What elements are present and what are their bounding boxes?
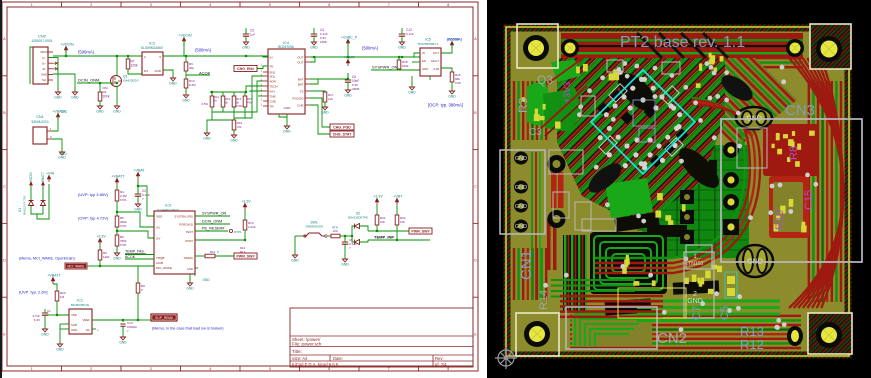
svg-text:OUT: OUT	[297, 60, 304, 64]
svg-text:(500mA): (500mA)	[362, 46, 379, 51]
svg-text:B: B	[3, 111, 6, 115]
svg-text:A: A	[3, 37, 6, 41]
svg-text:A: A	[474, 37, 477, 41]
svg-text:TEMP_INP: TEMP_INP	[374, 235, 394, 240]
svg-text:KiCad E.D.A. kicad 6.0.5: KiCad E.D.A. kicad 6.0.5	[292, 362, 339, 367]
svg-text:(500mA): (500mA)	[78, 50, 95, 55]
svg-text:PE_RESER#: PE_RESER#	[202, 227, 225, 231]
svg-text:7: 7	[142, 197, 144, 201]
svg-text:OUT: OUT	[433, 51, 439, 55]
svg-text:E: E	[3, 332, 6, 336]
svg-text:GND: GND	[284, 106, 292, 110]
svg-text:GND: GND	[687, 298, 703, 305]
svg-text:4: 4	[209, 3, 211, 7]
svg-text:GND: GND	[71, 96, 79, 100]
svg-text:120k: 120k	[131, 64, 138, 68]
svg-text:CN2: CN2	[657, 330, 687, 347]
svg-text:GND: GND	[54, 96, 62, 100]
svg-text:+3.3V: +3.3V	[96, 235, 106, 239]
svg-text:TNB: TNB	[270, 94, 276, 98]
svg-text:CHE: CHE	[297, 103, 303, 107]
svg-text:CN1: CN1	[518, 250, 535, 280]
svg-text:PORT: PORT	[185, 239, 193, 243]
svg-text:IC5: IC5	[425, 38, 431, 42]
svg-text:0.5%: 0.5%	[202, 102, 209, 106]
svg-text:C7: C7	[691, 306, 703, 320]
svg-text:DCIN_ONM: DCIN_ONM	[78, 78, 99, 83]
svg-text:PORCH(S): PORCH(S)	[179, 223, 193, 227]
svg-text:2: 2	[90, 367, 92, 371]
svg-text:BAT: BAT	[298, 82, 304, 86]
svg-text:0.5%: 0.5%	[120, 198, 127, 202]
svg-text:CN3: CN3	[785, 102, 815, 119]
svg-text:7: 7	[388, 3, 390, 7]
svg-text:Date:: Date:	[333, 356, 343, 361]
svg-text:(OVP: typ 4.72V): (OVP: typ 4.72V)	[78, 216, 109, 221]
svg-text:THERMOSW: THERMOSW	[305, 225, 323, 229]
svg-text:10k: 10k	[380, 220, 385, 224]
svg-text:1M: 1M	[60, 295, 65, 299]
svg-text:R10: R10	[774, 210, 786, 230]
svg-text:IN: IN	[270, 55, 273, 59]
svg-text:R3: R3	[516, 97, 530, 113]
svg-text:3: 3	[150, 367, 152, 371]
svg-text:C3: C3	[529, 127, 542, 138]
svg-text:1: 1	[31, 3, 33, 7]
svg-text:0.05: 0.05	[455, 81, 461, 85]
svg-text:D: D	[3, 259, 6, 263]
svg-text:SUP_REM#: SUP_REM#	[155, 316, 173, 320]
svg-text:GND: GND	[242, 46, 250, 50]
svg-text:GND: GND	[59, 152, 67, 156]
svg-text:4: 4	[209, 367, 211, 371]
svg-text:R12: R12	[210, 250, 216, 254]
svg-text:GND: GND	[422, 67, 428, 71]
svg-text:DTP1: DTP1	[234, 230, 242, 234]
svg-text:TEST: TEST	[186, 230, 193, 234]
svg-text:C15: C15	[803, 190, 815, 210]
svg-text:47k: 47k	[237, 125, 242, 129]
svg-text:1: 1	[261, 53, 263, 57]
svg-text:TR(EN): TR(EN)	[184, 256, 194, 260]
svg-text:FAULT: FAULT	[431, 59, 439, 63]
svg-text:6: 6	[328, 367, 330, 371]
svg-text:6: 6	[328, 3, 330, 7]
svg-text:R8: R8	[788, 146, 800, 160]
svg-text:2: 2	[90, 3, 92, 7]
svg-text:TEMP_FAS: TEMP_FAS	[125, 250, 144, 254]
svg-text:SUB: SUB	[71, 323, 77, 327]
svg-text:0.5%: 0.5%	[120, 224, 127, 228]
svg-text:DCIN_ONM: DCIN_ONM	[202, 220, 222, 224]
svg-text:TECH: TECH	[270, 84, 278, 88]
svg-text:CHG_STAT: CHG_STAT	[333, 133, 353, 137]
svg-text:GND: GND	[202, 278, 210, 282]
svg-text:3: 3	[150, 3, 152, 7]
svg-text:CN2: CN2	[38, 34, 47, 39]
svg-text:+VBT: +VBT	[393, 195, 403, 199]
svg-text:+VBAT: +VBAT	[133, 169, 145, 173]
svg-text:.TN103: .TN103	[687, 261, 704, 267]
svg-text:SI4425DDY: SI4425DDY	[123, 79, 139, 83]
svg-text:GND: GND	[182, 99, 190, 103]
svg-text:Q3: Q3	[537, 73, 553, 87]
svg-text:GND: GND	[515, 156, 527, 162]
svg-text:100k: 100k	[103, 95, 110, 99]
svg-text:12k: 12k	[328, 97, 333, 101]
svg-text:GND: GND	[408, 91, 416, 95]
svg-text:C: C	[474, 185, 477, 189]
svg-text:E: E	[474, 332, 477, 336]
svg-text:+VBATT: +VBATT	[111, 175, 125, 179]
svg-text:8: 8	[447, 3, 449, 7]
svg-text:1k: 1k	[214, 99, 218, 103]
svg-text:1: 1	[31, 367, 33, 371]
svg-text:6.3V: 6.3V	[34, 318, 40, 322]
svg-text:+3V3: +3V3	[562, 82, 572, 103]
svg-text:+VSBC_P: +VSBC_P	[341, 36, 358, 40]
svg-text:SYSPWR_ON: SYSPWR_ON	[202, 212, 227, 216]
svg-text:GND: GND	[283, 130, 291, 134]
svg-text:GND: GND	[448, 95, 456, 99]
svg-text:EN: EN	[422, 59, 426, 63]
svg-text:VDD: VDD	[156, 215, 163, 219]
svg-text:[UVP: typ. 2.6V]: [UVP: typ. 2.6V]	[19, 290, 47, 295]
svg-text:1uF: 1uF	[250, 33, 255, 37]
svg-text:+VBAT: +VBAT	[343, 56, 355, 60]
svg-text:C: C	[3, 185, 6, 189]
svg-text:+VBATT: +VBATT	[52, 110, 66, 114]
svg-text:47k: 47k	[247, 101, 252, 105]
svg-text:0.5%: 0.5%	[120, 243, 127, 247]
svg-text:GND: GND	[515, 224, 527, 230]
svg-text:ADR: ADR	[270, 79, 277, 83]
svg-text:D-: D-	[43, 56, 46, 60]
svg-text:CHG_EN#: CHG_EN#	[237, 67, 254, 71]
svg-text:PWR_SW#: PWR_SW#	[411, 230, 429, 234]
svg-text:SYSPWR_ON: SYSPWR_ON	[372, 65, 398, 70]
svg-text:GND: GND	[398, 46, 406, 50]
svg-text:D: D	[474, 259, 477, 263]
svg-text:Size: A4: Size: A4	[292, 356, 308, 361]
svg-text:1608: 1608	[320, 40, 327, 44]
svg-text:OV: OV	[156, 237, 160, 241]
svg-text:5: 5	[269, 3, 271, 7]
svg-text:CHG_PGD: CHG_PGD	[333, 126, 351, 130]
svg-text:TS: TS	[300, 89, 304, 93]
svg-text:1050017-0001: 1050017-0001	[31, 39, 52, 43]
svg-text:+VIN: +VIN	[46, 172, 54, 176]
svg-text:120k: 120k	[103, 255, 110, 259]
svg-text:5: 5	[269, 367, 271, 371]
svg-text:+3.3V: +3.3V	[373, 195, 383, 199]
svg-text:TE: TE	[270, 64, 274, 68]
svg-text:GND: GND	[310, 46, 318, 50]
svg-text:GND: GND	[186, 287, 194, 291]
svg-text:VBUS: VBUS	[40, 50, 48, 54]
svg-text:TPS2553DRV-1: TPS2553DRV-1	[417, 42, 439, 46]
svg-text:BAV23SDKTPE: BAV23SDKTPE	[348, 216, 368, 220]
svg-text:R12: R12	[740, 337, 764, 352]
svg-text:GND: GND	[230, 139, 238, 143]
svg-text:0.5%: 0.5%	[236, 104, 243, 108]
svg-text:2: 2	[50, 135, 52, 139]
svg-text:PWR_SW#: PWR_SW#	[236, 255, 254, 259]
svg-text:1: 1	[50, 127, 52, 131]
svg-text:GND: GND	[113, 110, 121, 114]
svg-text:R14: R14	[538, 290, 550, 310]
svg-text:0.1uF: 0.1uF	[406, 32, 414, 36]
svg-text:ID: ID	[43, 67, 46, 71]
svg-text:(Memo, MCI_WAKE, OpenDrain): (Memo, MCI_WAKE, OpenDrain)	[19, 257, 76, 261]
svg-text:PT2 base rev. 1.1: PT2 base rev. 1.1	[620, 34, 745, 51]
svg-text:GND: GND	[134, 208, 142, 212]
svg-text:KIH: KIH	[270, 89, 275, 93]
svg-text:GND: GND	[56, 348, 64, 352]
svg-text:BD48235FVE: BD48235FVE	[71, 303, 89, 307]
svg-text:AB05: AB05	[352, 87, 360, 91]
svg-text:R2: R2	[103, 90, 107, 94]
svg-text:D4: D4	[144, 69, 148, 73]
svg-text:(UVP: typ 3.85V): (UVP: typ 3.85V)	[78, 192, 109, 197]
svg-text:CN1: CN1	[36, 115, 44, 119]
svg-text:GND: GND	[344, 94, 352, 98]
svg-text:2k: 2k	[225, 101, 229, 105]
svg-text:30k: 30k	[189, 66, 194, 70]
svg-text:ACOK: ACOK	[125, 255, 136, 259]
svg-text:GND: GND	[341, 263, 349, 267]
svg-text:6.2M: 6.2M	[189, 83, 196, 87]
svg-text:D1: D1	[18, 208, 22, 212]
svg-text:7: 7	[388, 367, 390, 371]
svg-text:x: x	[97, 328, 99, 332]
svg-text:53048-0210: 53048-0210	[31, 120, 48, 124]
svg-text:+VBATT: +VBATT	[47, 274, 61, 278]
svg-text:7: 7	[127, 329, 129, 333]
svg-text:+VDCIN: +VDCIN	[178, 34, 192, 38]
svg-text:GND: GND	[119, 341, 127, 345]
svg-text:MCI_WAKE: MCI_WAKE	[156, 266, 172, 270]
svg-text:8: 8	[447, 367, 449, 371]
svg-text:VREF: VREF	[83, 318, 91, 322]
svg-text:SLG59M1A56V: SLG59M1A56V	[141, 46, 164, 50]
svg-text:GND: GND	[321, 111, 329, 115]
svg-text:GND: GND	[41, 73, 47, 77]
svg-text:1: 1	[261, 62, 263, 66]
svg-text:SDL: SDL	[270, 74, 276, 78]
svg-text:OUT: OUT	[297, 55, 304, 59]
svg-text:100k: 100k	[402, 64, 409, 68]
svg-text:VDD: VDD	[71, 313, 77, 317]
svg-text:File: power.sch: File: power.sch	[292, 342, 322, 347]
svg-text:IN: IN	[422, 51, 425, 55]
svg-text:(500mA): (500mA)	[447, 37, 463, 42]
svg-text:ILIM: ILIM	[434, 67, 440, 71]
svg-text:C1: C1	[47, 309, 51, 313]
svg-text:ACIB: ACIB	[156, 261, 163, 265]
svg-text:(500mA): (500mA)	[195, 48, 212, 53]
svg-text:Id: 2/4: Id: 2/4	[435, 362, 447, 367]
svg-text:GND: GND	[96, 110, 104, 114]
svg-text:BAT: BAT	[298, 77, 304, 81]
svg-text:GND: GND	[187, 267, 193, 271]
svg-text:SYSTEM_(PE): SYSTEM_(PE)	[174, 215, 193, 219]
svg-text:GND: GND	[203, 137, 211, 141]
svg-text:B: B	[474, 111, 477, 115]
svg-text:C5: C5	[719, 306, 731, 320]
svg-text:2.00k: 2.00k	[248, 225, 256, 229]
svg-text:1: 1	[261, 97, 263, 101]
svg-text:7: 7	[349, 246, 351, 250]
svg-text:CHE: CHE	[270, 99, 276, 103]
svg-text:NC: NC	[86, 328, 90, 332]
svg-text:GND: GND	[41, 333, 49, 337]
svg-text:GND: GND	[515, 185, 527, 191]
svg-text:+VDCIN: +VDCIN	[60, 43, 74, 47]
svg-text:GND: GND	[113, 257, 121, 261]
svg-text:0: 0	[217, 250, 219, 254]
svg-text:BAS21VY-7F6: BAS21VY-7F6	[23, 195, 27, 215]
svg-text:Title:: Title:	[292, 349, 302, 354]
svg-text:UV: UV	[156, 226, 160, 230]
svg-text:(Memo, In the case that load s: (Memo, In the case that load sw is broke…	[152, 327, 224, 331]
svg-text:10k: 10k	[400, 220, 405, 224]
svg-text:TRQB: TRQB	[156, 256, 164, 260]
svg-text:IC1: IC1	[77, 299, 83, 303]
svg-text:GND: GND	[58, 156, 66, 160]
svg-text:[OCP: typ. 380mA]: [OCP: typ. 380mA]	[428, 103, 463, 108]
svg-text:1: 1	[261, 102, 263, 106]
svg-text:D+: D+	[42, 61, 46, 65]
svg-text:GND: GND	[169, 82, 177, 86]
svg-text:100: 100	[332, 229, 337, 233]
svg-text:Rev:: Rev:	[435, 356, 444, 361]
svg-text:GND: GND	[71, 328, 77, 332]
svg-text:GND: GND	[515, 204, 527, 210]
svg-text:+3.3V: +3.3V	[241, 200, 251, 204]
svg-text:2: 2	[693, 291, 697, 298]
svg-text:PGOOD: PGOOD	[292, 96, 304, 100]
svg-text:0: 0	[141, 288, 143, 292]
svg-text:GND: GND	[154, 69, 162, 73]
svg-text:GND: GND	[291, 259, 299, 263]
svg-text:SH: SH	[42, 78, 46, 82]
svg-text:MCI_WAKE: MCI_WAKE	[68, 264, 85, 268]
